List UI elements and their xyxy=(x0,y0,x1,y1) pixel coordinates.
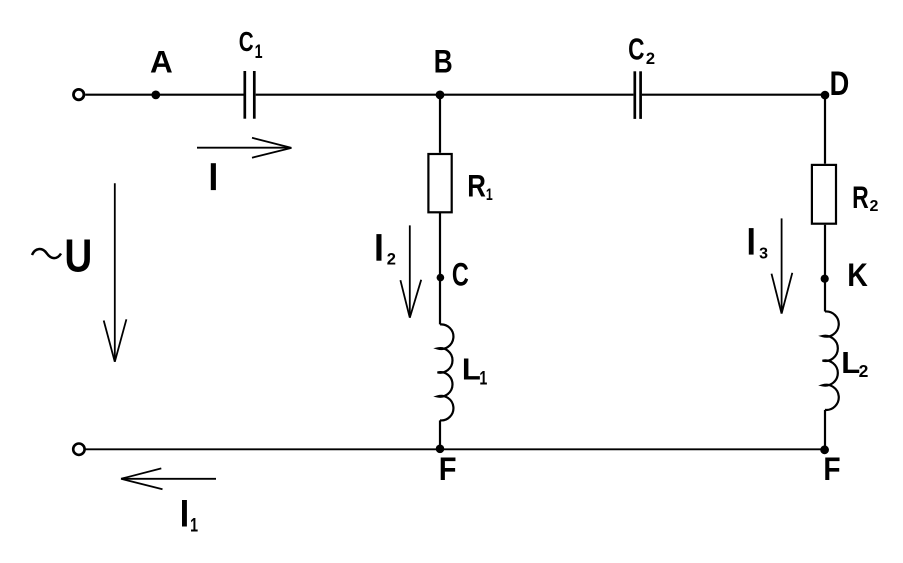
svg-text:B: B xyxy=(434,45,453,80)
svg-text:A: A xyxy=(150,44,173,80)
wire bottom: terminal to F right xyxy=(85,448,824,450)
node F (right) xyxy=(820,445,829,454)
svg-text:1: 1 xyxy=(255,41,263,62)
node K xyxy=(821,275,829,283)
svg-text:L: L xyxy=(841,345,860,380)
svg-text:1: 1 xyxy=(190,515,198,536)
wire top: terminal to C1 left plate xyxy=(85,94,243,96)
inductor L1 xyxy=(438,324,454,420)
svg-text:F: F xyxy=(439,452,457,488)
voltage arrow U xyxy=(104,183,127,362)
wire: L1 to bottom node F xyxy=(439,420,441,449)
node A xyxy=(151,91,160,100)
terminal (bottom left input) xyxy=(73,444,84,455)
svg-text:1: 1 xyxy=(486,186,493,204)
svg-text:2: 2 xyxy=(646,50,655,68)
resistor R1 xyxy=(428,154,451,212)
wire top: C2 to D xyxy=(642,94,825,96)
C1 value label xyxy=(239,27,263,63)
svg-text:2: 2 xyxy=(870,198,879,215)
svg-text:L: L xyxy=(462,351,481,386)
L2 value label xyxy=(841,345,868,381)
I1 label xyxy=(182,500,198,536)
node B xyxy=(436,91,445,100)
inductor L2 xyxy=(823,311,839,410)
svg-text:C: C xyxy=(628,31,644,66)
current arrow I2 xyxy=(400,225,421,317)
svg-text:R: R xyxy=(852,180,869,215)
current arrow I1 xyxy=(121,468,216,489)
svg-text:D: D xyxy=(830,64,850,103)
I3 label xyxy=(749,228,768,263)
svg-text:C: C xyxy=(239,27,254,58)
svg-text:2: 2 xyxy=(859,361,869,381)
svg-text:1: 1 xyxy=(479,367,487,388)
svg-text:U: U xyxy=(64,230,92,281)
svg-text:3: 3 xyxy=(759,246,768,263)
current arrow I xyxy=(197,138,292,158)
wire top: C1 to C2 xyxy=(256,94,634,96)
resistor R2 xyxy=(812,165,836,224)
AC tilde symbol xyxy=(32,249,61,258)
I label xyxy=(211,163,216,190)
svg-text:2: 2 xyxy=(387,251,396,269)
node C xyxy=(437,274,445,282)
svg-text:C: C xyxy=(452,256,469,293)
capacitor C1 xyxy=(245,71,255,119)
node D xyxy=(821,91,830,100)
R1 value label xyxy=(467,169,493,204)
I2 label xyxy=(376,234,396,268)
wire: D down to R2 xyxy=(824,95,826,164)
node F (left) xyxy=(436,445,445,454)
wire: L2 to bottom node F xyxy=(824,410,826,450)
wire: R1 down through node C to L1 xyxy=(439,212,441,324)
wire: B down to R1 xyxy=(439,95,441,153)
current arrow I3 xyxy=(772,218,793,313)
R2 value label xyxy=(852,180,878,215)
wire: R2 down through node K to L2 xyxy=(824,225,826,312)
L1 value label xyxy=(462,351,487,388)
svg-text:R: R xyxy=(467,169,486,204)
terminal (top left input) xyxy=(74,89,84,99)
C2 value label xyxy=(628,31,655,68)
capacitor C2 xyxy=(635,71,641,119)
svg-text:K: K xyxy=(847,258,868,293)
svg-text:F: F xyxy=(823,452,840,487)
